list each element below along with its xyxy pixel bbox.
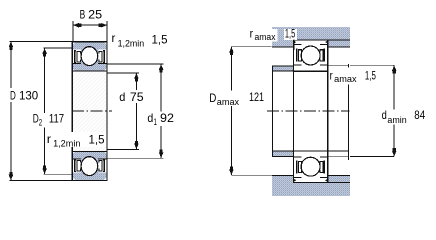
svg-text:25: 25 (88, 7, 102, 21)
label D 130 white backdrop (8, 88, 41, 102)
dimension Damax: extension lines (231, 47, 272, 176)
shield plate right (top section) (103, 50, 105, 63)
svg-text:r: r (330, 68, 333, 82)
svg-text:r: r (47, 132, 51, 146)
shield bracket right (right view top) (319, 50, 323, 61)
dimension Damax: bottom arrowhead (229, 167, 234, 175)
inner ring bore chamfer nub right (right view bottom) (328, 151, 330, 153)
inner+outer ring section (bottom), blue dithered block (73, 152, 107, 180)
dimension d: bottom arrowhead (134, 141, 139, 149)
svg-text:117: 117 (49, 111, 64, 125)
shield plate left (right view top) (296, 49, 298, 62)
shield pocket white backdrop left (bottom section) (73, 159, 81, 173)
bearing outline rectangle (left view) (72, 42, 107, 181)
outer+inner ring section (top), blue dithered block (73, 42, 107, 70)
shield inner bracket right (top section) (98, 51, 102, 62)
svg-text:d: d (147, 111, 153, 125)
svg-text:130: 130 (19, 89, 39, 103)
svg-text:amax: amax (334, 74, 357, 84)
svg-text:1: 1 (154, 117, 157, 127)
inner ring shoulder lines (right view top) (294, 64, 328, 66)
shaft shoulder edges upper-left (272, 66, 293, 71)
dimension D2: extension lines (43, 48, 71, 174)
bore line (right view top section) (294, 70, 328, 72)
dimension D2: bottom arrowhead (42, 166, 47, 174)
shield pocket white backdrop right (top section) (98, 50, 106, 64)
shaft shoulder ring upper-left (blue) (272, 66, 293, 71)
svg-text:121: 121 (249, 90, 264, 104)
shield bracket left (right view bottom) (298, 161, 302, 172)
svg-text:1,5: 1,5 (365, 69, 376, 83)
inner ring shoulder lines (right view bottom) (294, 156, 328, 158)
svg-text:1,2min: 1,2min (118, 38, 145, 48)
bearing chamfer nub top-right (right view) (325, 40, 328, 43)
svg-text:2: 2 (39, 117, 42, 127)
housing shoulder bottom edge right (upper) (328, 46, 349, 48)
shield inner bracket right (bottom section) (98, 160, 102, 171)
svg-text:D: D (10, 89, 16, 103)
ball (top section) (81, 47, 98, 66)
svg-text:B: B (80, 7, 86, 21)
housing bore line (upper) (294, 39, 350, 41)
shaft spacer top line (d_a level, right of bearing) (328, 64, 349, 66)
leader from r_amax top label to housing shoulder fillet (293, 39, 295, 50)
shaft surface line right of bearing (lower) (328, 150, 349, 152)
svg-text:D: D (209, 91, 216, 105)
svg-text:1,5: 1,5 (89, 132, 105, 146)
housing bore line (lower) (294, 181, 350, 183)
housing shoulder top edge left (lower) (272, 174, 294, 176)
dimension d: top arrowhead (134, 73, 139, 81)
label Damax 121 white backdrop (208, 91, 242, 106)
housing shoulder bottom edge left (upper) (272, 46, 294, 48)
inner ring shoulder edge segments (bottom section, d1 level) (73, 158, 107, 160)
housing lower block (blue) (272, 175, 350, 196)
housing shoulder top edge right (lower) (328, 174, 349, 176)
shaft spacer face tick (upper) (347, 64, 349, 67)
shaft shoulder ring lower-left (blue) (272, 151, 293, 156)
housing upper block (blue) (272, 27, 350, 47)
bearing chamfer nub bottom-left (right view) (294, 179, 297, 182)
svg-text:75: 75 (130, 90, 144, 104)
dimension d_amin: top arrowhead (392, 65, 397, 73)
svg-text:d: d (119, 90, 125, 104)
dimension d: dimension line (135, 73, 137, 150)
label r1,2min 1,5 white backdrop (bottom, near lower-left chamfer) (45, 132, 106, 147)
shield plate right (right view bottom) (324, 161, 326, 174)
shaft shoulder edges lower-left (272, 151, 293, 156)
dimension D: extension lines (10, 41, 72, 180)
bearing body interior hatch (72, 42, 107, 181)
dimension Damax: top arrowhead (229, 47, 234, 55)
shield inner bracket left (bottom section) (77, 160, 81, 171)
inner ring bore chamfer nub right (right view top) (328, 69, 330, 71)
inner ring bore chamfer nub left (right view bottom) (292, 151, 294, 153)
shield plate left (top section) (74, 50, 76, 63)
bearing outline (right view) (294, 40, 328, 183)
dimension d_amin: extension lines (350, 65, 394, 156)
dimension d_amin: dimension line (393, 65, 395, 156)
shield plate left (right view bottom) (296, 161, 298, 174)
dimension D2: dimension line (44, 48, 46, 174)
dimension d1: extension lines (107, 64, 163, 158)
dimension d1: top arrowhead (159, 64, 164, 72)
shield plate right (right view top) (324, 49, 326, 62)
shield plate left (bottom section) (74, 159, 76, 172)
bore line (top section) (72, 70, 107, 72)
dimension d_amin: bottom arrowhead (392, 148, 397, 156)
dimension B: left arrowhead (73, 23, 81, 28)
bore line (bottom section) (72, 150, 107, 152)
shield bracket right (right view bottom) (319, 161, 323, 172)
svg-text:1,5: 1,5 (285, 26, 295, 40)
dimension Damax: dimension line (230, 47, 232, 176)
shield inner bracket left (top section) (77, 51, 81, 62)
dimension d1: dimension line (160, 64, 162, 158)
inner ring shoulder edge segments (top section, d1 level) (73, 62, 107, 64)
label r_amax 1,5 (top) white backdrop (248, 29, 278, 42)
shield plate right (bottom section) (103, 159, 105, 172)
centerline (left view axis) (72, 110, 112, 112)
ball (bottom section) (81, 157, 98, 176)
dimension B: right arrowhead (99, 23, 107, 28)
centerline (right view axis) (267, 110, 350, 112)
svg-text:d: d (382, 108, 387, 122)
label d 75 white backdrop (118, 90, 146, 103)
svg-text:amin: amin (387, 115, 406, 125)
shaft shoulder face line (271, 66, 273, 157)
outer ring inner surface lines (right view top) (294, 44, 328, 46)
shaft spacer bottom line (d_a level, right of bearing) (328, 156, 349, 158)
label r_amax 1,5 (middle right) white backdrop (328, 71, 358, 85)
svg-text:84: 84 (414, 108, 425, 122)
value 1,5 (top) white backdrop (284, 29, 297, 40)
svg-text:1,2min: 1,2min (53, 139, 80, 149)
dimension D: bottom arrowhead (9, 172, 14, 180)
svg-text:92: 92 (160, 111, 174, 125)
shield pocket white backdrop left (top section) (73, 50, 81, 64)
dimension B: dimension line (73, 24, 107, 26)
shaft spacer face line (347, 71, 349, 160)
dimension d1: bottom arrowhead (159, 150, 164, 158)
dimension d: extension lines (107, 73, 138, 150)
ball (right view top) (301, 46, 320, 65)
dimension D: top arrowhead (9, 42, 14, 50)
svg-text:1,5: 1,5 (152, 32, 168, 46)
dimension B: extension lines (73, 21, 107, 42)
svg-text:amax: amax (255, 32, 276, 42)
bearing chamfer nub bottom-right (right view) (325, 179, 328, 182)
label d1 92 white backdrop (146, 111, 176, 126)
bearing chamfer nub top-left (right view) (294, 40, 297, 43)
label d_amin 84 white backdrop (380, 109, 409, 124)
shield bracket left (right view top) (298, 50, 302, 61)
bore line (right view bottom section) (294, 150, 328, 152)
dimension D: dimension line (10, 41, 12, 180)
svg-text:r: r (112, 31, 116, 45)
outer ring inner surface lines (right view bottom) (294, 177, 328, 179)
label D2 117 white backdrop (31, 113, 66, 128)
inner ring bore chamfer nub left (right view top) (292, 69, 294, 71)
svg-text:r: r (250, 26, 253, 40)
svg-text:amax: amax (217, 97, 240, 107)
shield pocket white backdrop right (bottom section) (98, 159, 106, 173)
ball (right view bottom) (301, 157, 320, 176)
dimension D2: top arrowhead (42, 48, 47, 56)
